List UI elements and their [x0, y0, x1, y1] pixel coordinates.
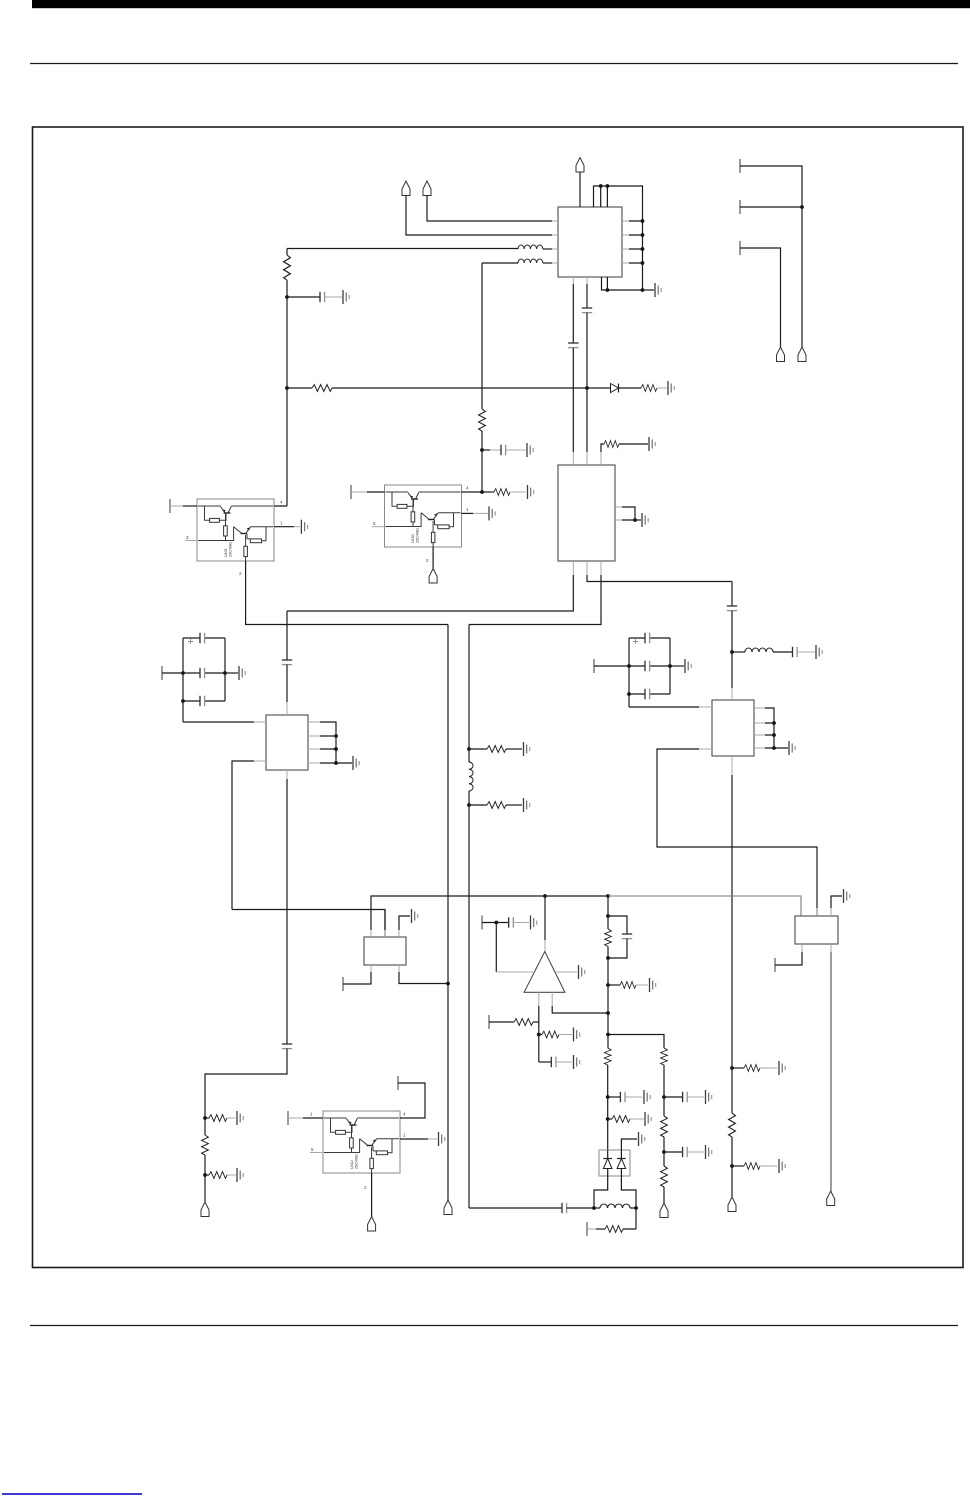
- wire net y896 gray segment to U5: [608, 896, 801, 916]
- junction dots discriminator: [592, 1206, 596, 1210]
- wire right bank to U6: [629, 706, 699, 708]
- wire T6 to bank: [162, 672, 183, 674]
- ground R22: [237, 1111, 243, 1125]
- resistor R9: [489, 1019, 539, 1026]
- wire U2 pin to net y611: [287, 575, 573, 611]
- ground C2: [527, 443, 533, 457]
- wire Q2 pin1 to ground: [462, 512, 474, 514]
- wire x538 column: [538, 1006, 540, 1062]
- connector flag P12: [444, 1200, 452, 1215]
- C5 polarity mark: [188, 639, 193, 644]
- junction dot x664/y1152: [662, 1150, 666, 1154]
- wire U1 bottom pins to ground rail: [602, 277, 643, 290]
- connector flag P10: [201, 1202, 209, 1217]
- svg-text:U401: U401: [224, 548, 228, 557]
- junction dot C1 node: [285, 295, 289, 299]
- junction dot x469/y805: [467, 803, 471, 807]
- wire flag P1 to U1: [579, 172, 581, 207]
- junction dots U3 bus: [334, 734, 338, 738]
- diode pair D2 box: [599, 1150, 630, 1176]
- Q3 label text: [350, 1154, 359, 1169]
- svg-text:2SC4081: 2SC4081: [229, 542, 233, 557]
- wire Q1 pin2 down to net y625: [246, 561, 448, 625]
- wire bank to U3: [183, 721, 254, 723]
- inductor L4 (vertical x469): [469, 749, 473, 805]
- wire x664 col2: [663, 1137, 665, 1166]
- junction dot x469/y749: [467, 747, 471, 751]
- inductor L2: [518, 259, 552, 263]
- ground R21: [779, 1159, 785, 1173]
- junction dot x608/y916: [606, 914, 610, 918]
- junction dots net y896: [543, 894, 547, 898]
- wire U7 pin to x608: [552, 1006, 608, 1013]
- wire column x469 lower: [468, 805, 470, 1208]
- wire U1 right pins to bus: [629, 221, 643, 263]
- resistor R10: [539, 1031, 572, 1038]
- connector flag P7: [827, 1191, 835, 1206]
- capacitor C8 (on x287 above U3): [282, 611, 292, 702]
- resistor R2: [312, 385, 332, 392]
- wire column x448: [447, 625, 449, 1201]
- terminal T13 (Q3 input): [287, 1111, 289, 1125]
- transistor array Q3 (U412 2SC4081): [323, 1111, 400, 1173]
- resistor R14: [608, 1116, 644, 1123]
- wire x732 col2: [731, 1137, 733, 1197]
- terminal T9: [481, 916, 483, 930]
- ground R5: [649, 437, 655, 451]
- wire T7 to right bank: [594, 665, 629, 667]
- wire U7 output to ground: [555, 971, 577, 973]
- wire U3 bottom pin down: [286, 779, 288, 1044]
- wire x607 lower: [607, 1065, 609, 1150]
- wire L1 to node A: [287, 248, 518, 250]
- svg-text:U430: U430: [411, 534, 415, 543]
- connector flag P8: [660, 1203, 668, 1218]
- wire U4 to net y896: [371, 896, 608, 930]
- wire Q3 pin1 to ground: [400, 1138, 428, 1140]
- wire flag P3 to U1 pin: [427, 196, 552, 222]
- terminal T11: [774, 958, 776, 972]
- resistor R5 (U2 top pin to ground): [601, 441, 648, 452]
- terminal T2: [739, 200, 741, 214]
- wire Q2 pin2 to flag: [432, 547, 434, 569]
- ground U7: [579, 965, 585, 979]
- wire x232 to U4 top pin: [232, 910, 385, 938]
- resistor R8: [469, 802, 522, 809]
- junction dot x205/y1118: [203, 1116, 207, 1120]
- resistor R24: [205, 1172, 236, 1179]
- Q1 label text: [224, 542, 233, 557]
- terminal T10: [488, 1015, 490, 1029]
- junction dots U1 top: [599, 184, 603, 188]
- ground left bank: [239, 666, 245, 680]
- Q1 pin3 stub: [185, 540, 197, 542]
- ground U6: [789, 741, 795, 755]
- wire T1: [740, 166, 802, 207]
- junction dot y388/x587: [585, 386, 589, 390]
- capacitor C19: [664, 1092, 704, 1102]
- junction dot x608/y958: [606, 956, 610, 960]
- capacitor C12 (on x732 above U6): [727, 582, 737, 689]
- wire T4 to Q1: [170, 505, 183, 507]
- wire bus to ground: [643, 289, 655, 291]
- capacitor C15: [539, 1057, 572, 1067]
- wire T13 to Q3: [288, 1117, 303, 1119]
- op-amp U7: [524, 952, 565, 993]
- ground C15: [574, 1055, 580, 1069]
- junction dot x608/y1034: [606, 1033, 610, 1037]
- ground Q1 pin1: [301, 520, 307, 534]
- U5 pin stubs: [802, 908, 831, 952]
- ground R3: [668, 381, 674, 395]
- IC U4 (ceramic filter): [364, 937, 406, 965]
- connector flag P6: [429, 569, 437, 584]
- terminal T3: [739, 241, 741, 255]
- resistor R11 (vertical x608): [605, 929, 612, 946]
- terminal T5 (Q2 input): [350, 485, 352, 499]
- IC U5: [795, 916, 838, 944]
- wire U1 top loop to right bus: [594, 186, 643, 290]
- svg-text:2SC4081: 2SC4081: [355, 1154, 359, 1169]
- wire U3 right pins to bus: [320, 722, 352, 763]
- resistor R16 (vertical x664): [661, 1048, 668, 1065]
- junction dot x496/y922: [494, 921, 498, 925]
- U3 pin stubs: [254, 702, 320, 779]
- junction dot T2: [800, 205, 804, 209]
- resistor R3: [619, 385, 668, 392]
- terminal T7 (node y666): [593, 659, 595, 673]
- ground C1: [343, 290, 349, 304]
- terminal T14: [397, 1076, 399, 1090]
- U2 pin stubs: [573, 452, 622, 575]
- wire U5 pin to ground: [831, 896, 842, 908]
- Q2 pin3 stub: [372, 526, 385, 528]
- wire Q1 pin4 to node A column: [274, 388, 287, 506]
- wire D2b down-right jog: [621, 1176, 636, 1208]
- terminal T4 (Q1 input): [169, 499, 171, 513]
- wire bank to ground: [225, 672, 238, 674]
- junction dot x608/y1013: [606, 1011, 610, 1015]
- Q2 label text: [411, 528, 420, 543]
- wire U2 pin to net y582: [587, 575, 732, 582]
- diode D2b: [617, 1150, 626, 1176]
- wire L2 to node B: [482, 262, 518, 264]
- ground U3: [353, 756, 359, 770]
- junction dot x664/y1097: [662, 1095, 666, 1099]
- junction dots U1 ground rail: [606, 288, 610, 292]
- wire R2 left stub: [287, 387, 312, 389]
- junction dot x607/y1097: [606, 1095, 610, 1099]
- wire right bank to ground: [670, 665, 684, 667]
- connector flag P11: [368, 1217, 376, 1232]
- connector flag P3: [423, 181, 431, 196]
- connector flag P9: [728, 1197, 736, 1212]
- wire U4 bottom-left to T8: [343, 972, 371, 984]
- capacitor C4 (on x574): [568, 284, 578, 452]
- terminal T8: [342, 977, 344, 991]
- junction dot x607/y1119: [606, 1117, 610, 1121]
- junction dot C2 node: [480, 448, 484, 452]
- ground C13: [816, 645, 822, 659]
- capacitor C16 (parallel branch x627): [608, 916, 632, 958]
- capacitor C3 (on x587): [582, 284, 592, 452]
- resistor R21: [732, 1163, 778, 1170]
- wire T9 node to op-amp input: [495, 923, 497, 973]
- footer link underline (blue): [2, 1493, 142, 1495]
- page top black bar: [32, 0, 970, 8]
- wire D2a down-left jog: [594, 1176, 608, 1208]
- wire x732 col: [731, 1068, 733, 1113]
- capacitor C18: [469, 1203, 594, 1213]
- connector flag P2: [402, 181, 410, 196]
- ground Q3 pin1: [439, 1132, 445, 1146]
- U1 pin stubs: [552, 200, 629, 284]
- inductor L5: [594, 1204, 636, 1208]
- wire T3 to flag P4: [740, 248, 781, 347]
- wire U4 bottom-right to x448: [399, 972, 448, 984]
- resistor R18 (vertical x664): [661, 1166, 668, 1187]
- junction dot x732/y1068: [730, 1066, 734, 1070]
- inductor L1: [518, 245, 552, 249]
- ground R24: [237, 1168, 243, 1182]
- capacitor C5: [200, 633, 205, 643]
- wire Q3 pin2 to flag: [371, 1173, 373, 1217]
- junction dot x732/y652: [730, 650, 734, 654]
- ground R7: [524, 742, 530, 756]
- IC U1: [558, 207, 622, 277]
- capacitor C10: [645, 661, 650, 671]
- wire x205 col: [204, 1155, 206, 1202]
- resistor R15: [587, 1208, 636, 1232]
- junction dot x732/y1166: [730, 1164, 734, 1168]
- ground U4: [412, 909, 418, 923]
- wire U3 left-bottom pin to x232: [232, 761, 254, 910]
- terminal T1: [739, 159, 741, 173]
- inductor L3: [732, 648, 792, 652]
- junction dots right bank: [627, 664, 631, 668]
- junction dot x538/y1034: [537, 1033, 541, 1037]
- junction dots U1 right bus: [641, 219, 645, 223]
- wire node B vertical x482: [481, 263, 483, 409]
- ground R8: [524, 798, 530, 812]
- ground U1: [655, 283, 661, 297]
- resistor R7: [469, 746, 522, 753]
- wire U2 pin to net y625: [469, 575, 601, 625]
- IC U3: [266, 715, 308, 770]
- ground R10: [574, 1028, 580, 1042]
- junction dot R2 node: [285, 386, 289, 390]
- diode D2a: [603, 1150, 612, 1176]
- wire U5 bottom-right down to flag: [830, 952, 832, 1191]
- capacitor C20: [664, 1147, 704, 1157]
- resistor R19: [732, 1065, 778, 1072]
- capacitor C11: [645, 689, 650, 699]
- IC U6: [712, 700, 754, 756]
- resistor R23 (vertical x205): [202, 1118, 209, 1155]
- ground C17: [644, 1090, 650, 1104]
- resistor R22: [205, 1115, 236, 1122]
- wire U2 right pins loop: [622, 507, 641, 520]
- wire y896 to U7 apex: [544, 896, 546, 940]
- ground R14: [645, 1112, 651, 1126]
- capacitor C6: [200, 668, 205, 678]
- wire U4 pin to ground: [399, 916, 410, 930]
- wire Q1 pin1 to ground: [274, 526, 294, 528]
- ground right bank: [685, 659, 691, 673]
- wire Q2 pin4 to R6 node: [462, 491, 483, 493]
- resistor R17 (vertical x664): [661, 1116, 668, 1137]
- header rule: [30, 63, 958, 65]
- wire U6 bottom pin down x732: [731, 775, 733, 1068]
- wire column x469 upper: [468, 625, 470, 750]
- svg-text:U412: U412: [350, 1160, 354, 1169]
- wire x608 to x664: [608, 1035, 664, 1049]
- wire node A down: [286, 297, 288, 388]
- right capacitor bank rails: [629, 638, 670, 707]
- capacitor C13: [793, 647, 816, 657]
- capacitor C14: [509, 917, 529, 927]
- capacitor C21 (on x287 bottom): [205, 1044, 292, 1118]
- connector flag P5: [798, 347, 806, 362]
- wire U6 right pins to bus: [765, 708, 788, 748]
- transistor array Q1 (U401 2SC4081): [197, 499, 274, 561]
- wire main horizontal net y388: [332, 387, 610, 389]
- capacitor C1: [287, 292, 342, 302]
- wire R18 to flag: [663, 1187, 665, 1203]
- wire R1 to C1 node: [286, 280, 288, 297]
- junction dots U6 bus: [772, 721, 776, 725]
- ground R19: [779, 1061, 785, 1075]
- capacitor C2: [482, 445, 526, 455]
- terminal T12: [586, 1222, 588, 1236]
- C9 polarity mark: [633, 639, 638, 644]
- wire T2 to flag P5: [740, 207, 802, 347]
- wire flag P2 to U1 pin: [406, 196, 552, 236]
- IC U2: [558, 465, 615, 561]
- wire U4 top pin x385: [384, 910, 386, 931]
- ground C19: [706, 1090, 712, 1104]
- wire x664 col: [663, 1065, 665, 1116]
- U7 bottom stubs: [539, 992, 552, 1006]
- diode D1: [611, 384, 619, 393]
- transistor array Q2 (U430 2SC4081): [385, 485, 462, 547]
- ground R12: [650, 978, 656, 992]
- capacitor C17: [608, 1092, 643, 1102]
- ground Q2 pin1: [489, 506, 495, 520]
- U4 pin stubs: [371, 930, 399, 972]
- capacitor C9: [645, 633, 650, 643]
- resistor R12: [608, 982, 648, 989]
- resistor R1 (vertical at node A): [284, 249, 291, 281]
- wire R4 to C2 node: [481, 431, 483, 492]
- svg-text:2SC4081: 2SC4081: [416, 528, 420, 543]
- wire T5 to Q2: [351, 491, 367, 493]
- wire Q3 pin4 to T14: [398, 1083, 425, 1118]
- connector flag P1: [576, 158, 584, 173]
- junction dot U2 right: [633, 518, 637, 522]
- Q3 pin5 stub: [310, 1152, 323, 1154]
- wire x608 column top: [607, 896, 609, 929]
- ground C14: [531, 916, 537, 930]
- terminal T6 (left cap bank): [161, 666, 163, 680]
- ground D2b: [639, 1132, 645, 1146]
- resistor R4 (vertical x482): [479, 409, 486, 431]
- wire U5 bottom-left to T11: [775, 952, 802, 965]
- connector flag P4: [777, 347, 785, 362]
- junction dot x608/y985: [606, 983, 610, 987]
- junction dots left bank: [181, 671, 185, 675]
- resistor R20 (vertical x732): [729, 1113, 736, 1137]
- wire x608 mid: [607, 946, 609, 1048]
- left capacitor bank rails: [183, 638, 225, 722]
- footer rule: [30, 1325, 958, 1327]
- capacitor C7: [200, 696, 205, 706]
- junction dot x448/y983: [446, 982, 450, 986]
- U6 pin stubs: [699, 688, 765, 775]
- junction dot x482/y492: [480, 490, 484, 494]
- ground C20: [706, 1145, 712, 1159]
- resistor R6: [482, 489, 526, 496]
- resistor R13 (vertical x607): [604, 1048, 611, 1065]
- ground U5: [844, 889, 850, 903]
- junction dot x205/y1175: [203, 1173, 207, 1177]
- wire U6 left-bottom pin to x657 to x817: [657, 749, 817, 916]
- wire T9 to C14: [482, 922, 508, 924]
- ground U2 right: [642, 513, 648, 527]
- ground R6: [528, 485, 534, 499]
- schematic frame: [33, 127, 964, 1268]
- wire D2b to ground: [621, 1139, 637, 1150]
